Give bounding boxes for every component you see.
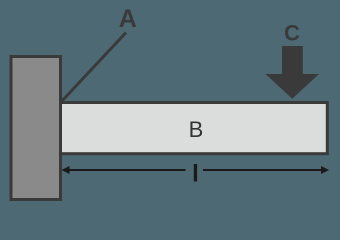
wall support	[11, 57, 61, 200]
svg-text:B: B	[189, 117, 204, 142]
svg-text:l: l	[192, 161, 199, 188]
svg-text:C: C	[284, 21, 300, 46]
svg-text:A: A	[119, 5, 137, 33]
left arrowhead	[62, 166, 70, 174]
beam B body	[60, 103, 328, 154]
dimension line left segment	[67, 169, 186, 171]
right arrowhead	[321, 166, 329, 174]
force arrow C	[266, 46, 320, 99]
dimension line right segment	[203, 169, 322, 171]
leader line A	[61, 33, 126, 103]
